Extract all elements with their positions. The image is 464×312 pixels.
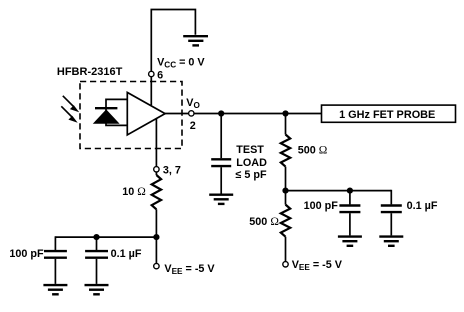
wire down to right 100 pF <box>349 191 351 205</box>
wire right 100 pF to ground <box>349 213 351 235</box>
junction 500Ω tap on Vo rail <box>282 110 288 116</box>
junction at right 100 pF <box>347 188 353 194</box>
node Vee left <box>154 263 159 268</box>
svg-text:TEST: TEST <box>236 144 264 156</box>
resistor 500Ω upper <box>281 135 290 167</box>
wire left 100 pF to ground <box>54 259 56 284</box>
wire Vo rail down to upper 500Ω <box>285 114 287 135</box>
node pin 6 (Vcc) <box>149 71 154 76</box>
photodiode D1 <box>93 99 128 125</box>
svg-text:LOAD: LOAD <box>236 157 267 169</box>
svg-text:6: 6 <box>157 69 163 81</box>
svg-text:100 pF: 100 pF <box>304 200 339 212</box>
wire amplifier bottom to pins 3,7 <box>155 118 157 167</box>
svg-text:HFBR-2316T: HFBR-2316T <box>57 66 123 78</box>
node pins 3,7 <box>154 167 159 172</box>
ground (right 0.1 µF) <box>379 237 403 246</box>
ground top (Vcc return) <box>183 36 208 45</box>
svg-text:10 Ω: 10 Ω <box>122 186 146 198</box>
svg-text:1 GHz FET PROBE: 1 GHz FET PROBE <box>339 109 435 121</box>
light arrow 1 <box>63 96 79 112</box>
junction mid node <box>282 188 288 194</box>
capacitor test load <box>211 159 231 166</box>
wire down to left 100 pF <box>54 236 56 250</box>
wire Vcc pin 6 up and over to top ground <box>151 10 195 72</box>
capacitor 0.1 µF left <box>85 251 108 258</box>
ground (right 100 pF) <box>338 237 362 246</box>
wire left 0.1 µF to ground <box>96 259 98 284</box>
wire lower 500Ω to Vee pin <box>285 237 287 262</box>
wire amplifier output to Vo pin 2 <box>165 113 189 115</box>
svg-text:≤ 5 pF: ≤ 5 pF <box>236 169 268 181</box>
junction at left 0.1 µF <box>93 234 99 240</box>
node Vee right <box>283 262 288 267</box>
ground (test load) <box>209 195 233 204</box>
wire Vcc pin into amplifier <box>150 77 152 106</box>
wire mid node to lower 500Ω <box>285 191 287 205</box>
box 1 GHz FET PROBE <box>322 105 456 122</box>
op-amp U1 (receiver amplifier) <box>127 92 165 134</box>
wire right 0.1 µF to ground <box>390 213 392 235</box>
wire down to test capacitor <box>220 114 222 159</box>
wire mid rail to right caps <box>286 190 392 192</box>
wire down to left 0.1 µF <box>96 237 98 250</box>
capacitor 0.1 µF right <box>381 206 402 213</box>
wire upper 500Ω to mid node <box>285 167 287 191</box>
resistor 500Ω lower <box>281 205 290 237</box>
svg-text:2: 2 <box>190 120 196 132</box>
svg-text:100 pF: 100 pF <box>9 248 44 260</box>
module outline HFBR-2316T (dashed box) <box>80 82 182 149</box>
svg-text:3, 7: 3, 7 <box>163 165 181 177</box>
capacitor 100 pF left <box>44 251 67 258</box>
svg-text:0.1 µF: 0.1 µF <box>407 200 438 212</box>
wire pins 3,7 to 10Ω <box>155 172 157 175</box>
wire bypass rail left <box>55 236 156 238</box>
wire Vo rail to probe box <box>194 113 322 115</box>
ground (left 0.1 µF) <box>85 285 109 294</box>
wire junction to Vee pin left <box>155 237 157 263</box>
junction Vee rail tap <box>153 234 159 240</box>
svg-text:500 Ω: 500 Ω <box>249 216 279 228</box>
svg-text:500 Ω: 500 Ω <box>298 144 328 156</box>
node pin 2 (Vo) <box>189 111 194 116</box>
capacitor 100 pF right <box>339 206 360 213</box>
wire 10Ω to Vee junction <box>155 209 157 237</box>
light arrow 2 <box>61 106 77 122</box>
wire test capacitor to ground <box>220 167 222 193</box>
resistor 10Ω <box>152 175 161 209</box>
ground (left 100 pF) <box>43 285 67 294</box>
wire down to right 0.1 µF <box>390 190 392 205</box>
junction test-load tap <box>218 110 224 116</box>
svg-text:0.1 µF: 0.1 µF <box>111 248 142 260</box>
